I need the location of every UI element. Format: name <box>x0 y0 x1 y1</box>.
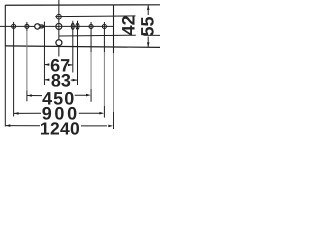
fixture left edge <box>4 5 6 46</box>
mounting hole 1 center mark + extension to 900 row <box>13 22 15 117</box>
keyhole slot extension line to 67/83 rows <box>43 22 45 85</box>
bottom knockout circle <box>56 40 62 46</box>
svg-text:42: 42 <box>119 15 139 35</box>
1240 dimension row <box>6 124 11 127</box>
svg-text:83: 83 <box>51 70 71 90</box>
oval slot 1 center mark extension <box>72 21 74 73</box>
oval slot 2 center mark extension <box>77 21 79 85</box>
big center hole <box>56 23 62 29</box>
83 dimension row <box>45 79 50 82</box>
oval mounting slot 1 <box>71 23 74 29</box>
keyhole slot circle <box>35 24 40 29</box>
fixture top outline <box>5 4 160 6</box>
svg-text:1240: 1240 <box>40 118 80 138</box>
mounting hole 5 center mark + extension to 450 row <box>90 22 92 52</box>
horizontal centerline <box>0 25 114 27</box>
450 dimension row <box>27 94 32 97</box>
extension line from small top hole to 42 dimension <box>55 15 135 18</box>
55 dimension line <box>147 5 149 15</box>
small top hole <box>57 14 62 19</box>
plan view right edge / extension at x=113.5 <box>113 5 115 53</box>
67 dimension row <box>45 63 50 66</box>
extension line from left edge down to 1240 row <box>4 46 6 127</box>
900 dimension row <box>14 112 19 115</box>
mounting hole 2 center mark + extension to 450 row <box>26 22 28 31</box>
fixture bottom outline <box>5 46 160 48</box>
oval mounting slot 2 <box>76 23 79 29</box>
svg-text:55: 55 <box>138 16 158 36</box>
internal profile line (bottom ref of 42 dim) <box>59 34 136 37</box>
mounting hole 5 <box>89 24 93 28</box>
55 dimension arrows <box>147 5 150 10</box>
mounting hole 1 <box>12 24 16 28</box>
mounting hole 6 <box>102 24 106 28</box>
mounting hole 2 <box>25 24 29 28</box>
keyhole slot tail <box>39 25 44 28</box>
mounting hole 6 center mark + extension to 900 row <box>103 22 105 52</box>
hole column center line (vertical, cropped at image top) <box>58 0 60 57</box>
